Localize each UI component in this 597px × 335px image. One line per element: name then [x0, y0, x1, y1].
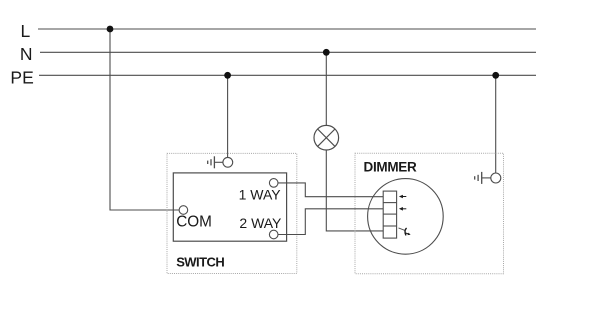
terminal COM: [179, 206, 188, 215]
junction L: [107, 26, 114, 33]
lamp E1: [314, 125, 339, 150]
svg-text:COM: COM: [176, 214, 212, 231]
svg-text:N: N: [20, 44, 33, 64]
switch S1 body: [173, 173, 286, 241]
arrow into terminal 1: [399, 195, 406, 199]
dimmer earth symbol: [475, 172, 501, 184]
junction PE-switch: [224, 72, 231, 79]
wire PE bus: [39, 74, 536, 76]
dimmer U1 body circle: [368, 179, 444, 255]
dimmer terminal block: [383, 191, 396, 238]
wire L bus: [38, 28, 536, 30]
svg-text:1 WAY: 1 WAY: [239, 186, 282, 202]
wire 1WAY to dimmer: [278, 183, 383, 197]
wire L to COM: [110, 29, 179, 210]
svg-text:SWITCH: SWITCH: [176, 254, 224, 269]
wire lamp to dimmer: [326, 150, 383, 231]
wire N bus: [40, 51, 536, 53]
junction PE-dimmer: [492, 72, 499, 79]
terminal 2WAY: [269, 230, 278, 239]
wire 2WAY to dimmer: [278, 209, 383, 235]
svg-text:PE: PE: [10, 67, 33, 87]
rotary control symbol: [399, 228, 411, 236]
svg-text:2 WAY: 2 WAY: [239, 215, 282, 231]
wire PE to switch earth: [227, 75, 229, 157]
terminal 1WAY: [269, 179, 278, 188]
wire PE to dimmer earth: [495, 75, 497, 173]
svg-text:DIMMER: DIMMER: [364, 159, 417, 174]
switch earth symbol: [208, 156, 233, 168]
arrow into terminal 2: [399, 207, 406, 211]
junction N: [323, 49, 330, 56]
svg-text:L: L: [21, 21, 31, 41]
switch enclosure dotted box: [167, 153, 297, 273]
dimmer enclosure dotted box: [355, 153, 504, 274]
wire N to lamp: [325, 52, 327, 125]
